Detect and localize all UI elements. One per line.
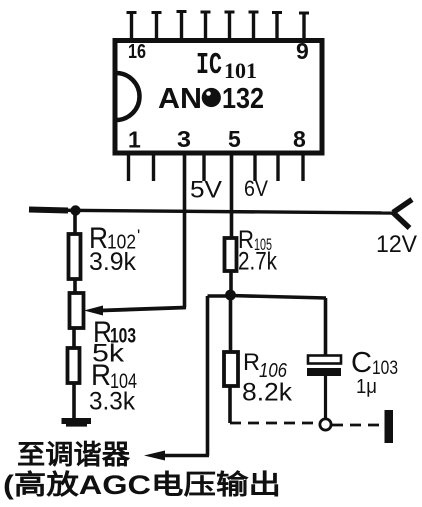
resistor R106 body 8.2k bbox=[224, 352, 238, 386]
svg-text:至调谐器: 至调谐器 bbox=[17, 440, 131, 470]
op-amp U1 : IC101 AN5132 DIP-16 body bbox=[115, 41, 322, 154]
wire R102 to R103 bbox=[73, 279, 77, 293]
svg-text:1: 1 bbox=[128, 127, 141, 153]
wire dashed bottom rail left bbox=[230, 422, 319, 425]
wire junction to R102 bbox=[73, 210, 77, 234]
svg-text:5V: 5V bbox=[190, 177, 222, 204]
capacitor C103 bottom plate bbox=[307, 368, 341, 376]
wire 12V rail bbox=[29, 210, 393, 213]
node junction below R105 bbox=[225, 290, 236, 301]
svg-text:3: 3 bbox=[177, 126, 191, 152]
capacitor C103 top plate bbox=[308, 356, 341, 364]
wire R104 to ground bbox=[72, 383, 76, 418]
svg-text:C: C bbox=[351, 347, 372, 379]
wire AGC output horizontal bbox=[160, 454, 209, 457]
smudge blob (the 5 of AN5132) bbox=[202, 88, 221, 107]
wire junction down to R106 bbox=[229, 295, 233, 352]
terminal arrow 12V bbox=[393, 200, 412, 229]
pin 16 top lead bbox=[127, 13, 137, 41]
svg-text:8: 8 bbox=[293, 126, 306, 152]
pin 7 bottom lead bbox=[276, 153, 279, 181]
resistor R102 body 3.9k bbox=[69, 234, 81, 279]
svg-text:12V: 12V bbox=[376, 231, 417, 258]
chassis hatch bar bbox=[385, 410, 394, 443]
wire junction right to C103 bbox=[230, 296, 326, 299]
pin 10 top lead bbox=[272, 13, 282, 41]
svg-text:3.3k: 3.3k bbox=[89, 388, 135, 416]
potentiometer R103 body 5k bbox=[70, 293, 84, 328]
pin 2 bottom lead bbox=[152, 153, 155, 181]
pin 12 top lead bbox=[225, 12, 235, 40]
svg-text:8.2k: 8.2k bbox=[242, 379, 293, 407]
IC notch (left-edge semicircle) bbox=[116, 73, 140, 120]
pin 6 bottom lead bbox=[253, 153, 256, 181]
svg-text:': ' bbox=[137, 226, 140, 245]
pin 11 top lead bbox=[249, 12, 259, 40]
wire pin3 down to wiper corner bbox=[183, 153, 187, 308]
svg-text:6V: 6V bbox=[244, 176, 268, 201]
svg-text:R: R bbox=[243, 349, 260, 376]
svg-text:AN: AN bbox=[158, 83, 202, 115]
svg-text:132: 132 bbox=[222, 83, 264, 115]
wire dashed bottom rail right bbox=[332, 424, 383, 427]
wire pin5 down to R105 bbox=[230, 153, 234, 238]
node junction 12V/R102 bbox=[70, 205, 80, 215]
node circle at C103 bottom bbox=[320, 419, 331, 430]
pin 14 top lead bbox=[177, 12, 187, 41]
svg-text:IC: IC bbox=[196, 48, 222, 83]
wire R106 to dashed rail bbox=[228, 386, 232, 423]
arrowhead to tuner bbox=[144, 451, 165, 461]
pin 4 bottom lead bbox=[202, 153, 205, 181]
pin 8 bottom lead bbox=[301, 153, 304, 181]
pin 13 top lead bbox=[201, 12, 211, 40]
svg-text:2.7k: 2.7k bbox=[238, 248, 277, 276]
ground symbol bbox=[62, 418, 92, 424]
wire R103 to R104 bbox=[72, 328, 76, 348]
pin 15 top lead bbox=[152, 13, 162, 41]
wire C103 to node circle bbox=[324, 376, 327, 419]
svg-text:(高放AGC电压输出: (高放AGC电压输出 bbox=[3, 469, 281, 500]
svg-text:9: 9 bbox=[296, 38, 309, 64]
svg-text:101: 101 bbox=[224, 58, 257, 83]
wire down to AGC output bbox=[206, 296, 210, 456]
wire 12V rail left heavy dash bbox=[29, 210, 68, 211]
potentiometer R103 wiper arrow bbox=[101, 308, 186, 311]
resistor R104 body 3.3k bbox=[68, 348, 80, 383]
resistor R105 body 2.7k bbox=[225, 238, 237, 271]
pin 9 top lead bbox=[299, 13, 309, 40]
svg-text:1μ: 1μ bbox=[356, 376, 377, 398]
svg-text:5: 5 bbox=[228, 126, 241, 152]
wire R105 to junction bbox=[229, 271, 233, 295]
pin 1 bottom lead bbox=[127, 153, 130, 181]
wire down to C103 bbox=[324, 298, 328, 355]
svg-text:16: 16 bbox=[128, 41, 146, 63]
svg-text:3.9k: 3.9k bbox=[89, 248, 136, 276]
wire junction left bbox=[208, 294, 231, 298]
